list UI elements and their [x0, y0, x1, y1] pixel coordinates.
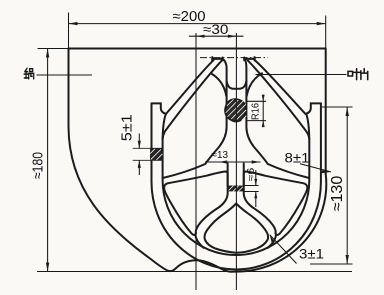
arrow 13 left — [219, 160, 228, 163]
arrow 200 right — [317, 22, 326, 25]
center column edges — [228, 164, 244, 186]
arrow 30 right — [228, 35, 237, 38]
dim 6 arrow stems — [255, 170, 257, 207]
dim 130 line — [346, 107, 348, 264]
leader 8+/-1 — [300, 164, 331, 172]
dim 200 line — [69, 23, 326, 25]
right blade outer edge — [255, 60, 305, 114]
hub boss hatched section — [225, 99, 246, 121]
arrow R16 bottom — [262, 121, 265, 128]
svg-text:≈13: ≈13 — [212, 150, 229, 161]
svg-text:≈30: ≈30 — [203, 21, 229, 37]
dim 130 bottom extension — [310, 263, 353, 265]
ground line — [37, 271, 352, 273]
svg-text:R16: R16 — [251, 103, 262, 120]
dim 200 extension left — [68, 13, 70, 49]
arrow R16 top — [262, 95, 265, 102]
pot top rim line — [69, 48, 326, 50]
dim 30 line — [189, 35, 244, 37]
arrow dim5 top — [138, 141, 141, 149]
rim hatched section (5 +/-1) — [150, 148, 162, 160]
svg-text:3±1: 3±1 — [299, 246, 324, 261]
R16 ticks — [247, 101, 266, 120]
dim 30 extension lines — [196, 33, 236, 290]
dim 200 extension right — [325, 16, 327, 49]
arrow 30 left — [196, 35, 205, 38]
svg-text:8±1: 8±1 — [285, 149, 310, 165]
wheel right step — [306, 103, 321, 113]
hub V-opening left side and left flare into spoke — [163, 59, 227, 178]
dim 13 line — [205, 161, 261, 163]
hub V-opening right side and right flare into spoke — [245, 59, 310, 178]
arrow leader 3 — [270, 235, 275, 244]
arrow dim6 top — [254, 179, 257, 186]
rim section tick lines — [133, 148, 163, 160]
svg-text:≈130: ≈130 — [329, 176, 346, 212]
pot left wall and bottom profile — [69, 49, 327, 272]
wheel left step — [152, 103, 166, 113]
dim 6 ticks — [244, 186, 259, 192]
svg-text:≈6: ≈6 — [246, 167, 257, 181]
bottom window — [205, 203, 269, 252]
arrow 180 top — [46, 49, 49, 58]
blade leader — [256, 74, 347, 76]
R16 dim line — [262, 95, 264, 128]
arrow 200 left — [69, 22, 78, 25]
leader 3+/-1 — [270, 235, 297, 264]
right blade inner edge — [248, 61, 309, 139]
lower-right window tail to rim — [268, 235, 276, 248]
dim 180 top extension — [38, 48, 69, 50]
svg-text:5±1: 5±1 — [119, 114, 135, 141]
lower-right window — [244, 172, 308, 235]
left blade inner edge — [163, 61, 222, 139]
svg-text:≈200: ≈200 — [173, 9, 206, 25]
dim 5 arrow stems — [138, 134, 140, 176]
left blade tip bar — [212, 57, 222, 60]
arrow 130 bottom — [346, 255, 349, 264]
arrow 180 bottom — [46, 263, 49, 272]
arrow 13 right — [252, 160, 261, 163]
hub notch left — [211, 73, 227, 96]
arrow dim6 bottom — [254, 192, 257, 199]
label blade (yepian) glyphs — [348, 69, 368, 80]
right blade tip bar — [244, 57, 254, 60]
lower-left window — [164, 172, 228, 235]
lower-left window tail to rim — [195, 235, 203, 248]
left blade outer edge — [166, 60, 214, 114]
arrow leader 8 — [321, 170, 331, 173]
dim 180 line — [47, 49, 49, 272]
dim 130 top extension — [322, 106, 353, 108]
wheel rim inner — [163, 114, 310, 255]
arrow dim5 bottom — [138, 160, 141, 168]
column hatched section — [228, 186, 244, 192]
pot right wall — [325, 49, 327, 175]
hub notch right — [247, 73, 262, 96]
label pot (guo) glyph — [24, 68, 34, 79]
centre dash-dot line — [200, 57, 268, 59]
hub V-opening bottom — [227, 81, 247, 89]
arrow 130 top — [346, 107, 349, 116]
pot leader — [37, 74, 93, 76]
svg-text:≈180: ≈180 — [30, 152, 47, 179]
wheel rim outer — [152, 103, 321, 269]
